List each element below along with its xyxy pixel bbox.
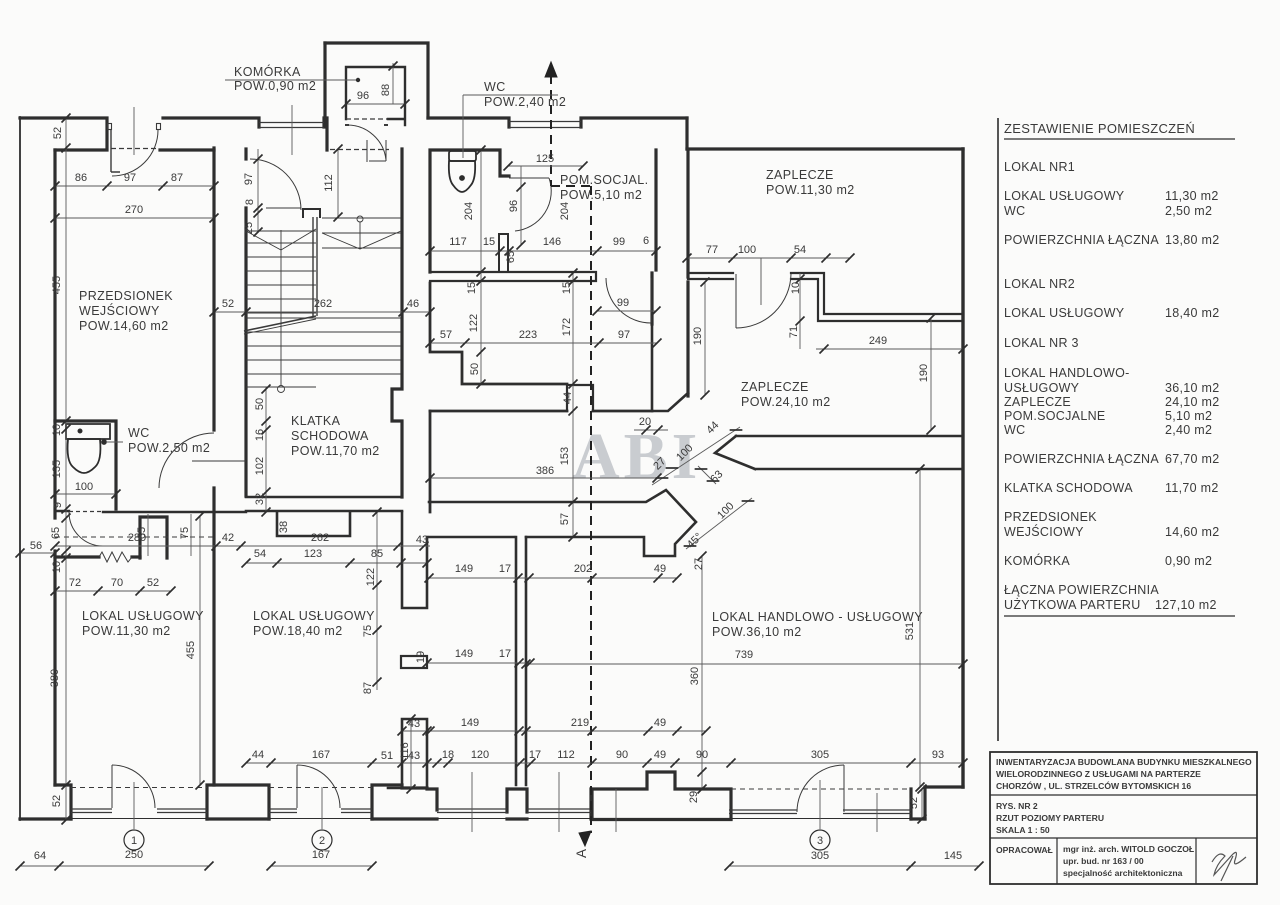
zaplecze24/bigroom band bbox=[715, 436, 963, 469]
dim 20 bbox=[634, 429, 668, 431]
svg-text:117: 117 bbox=[449, 236, 467, 248]
svg-text:120: 120 bbox=[471, 749, 489, 761]
vestibule dashed axis bbox=[55, 536, 215, 538]
panel divider line bbox=[997, 118, 999, 741]
dim row 149/17 (mid) bbox=[427, 662, 530, 664]
svg-text:POWIERZCHNIA ŁĄCZNA: POWIERZCHNIA ŁĄCZNA bbox=[1004, 452, 1159, 466]
vestibule dim lines bbox=[148, 514, 191, 556]
diagonal dim 63 bbox=[698, 466, 716, 484]
svg-text:52: 52 bbox=[51, 795, 63, 807]
vestibule pillar bbox=[140, 517, 167, 558]
corridor north wall bbox=[430, 283, 652, 411]
komorka leader bbox=[225, 79, 358, 81]
svg-text:54: 54 bbox=[254, 548, 266, 560]
svg-text:WIELORODZINNEGO Z USŁUGAMI NA: WIELORODZINNEGO Z USŁUGAMI NA PARTERZE bbox=[996, 769, 1201, 779]
svg-text:67,70 m2: 67,70 m2 bbox=[1165, 452, 1220, 466]
big room bottom piers: left pier of entrance bbox=[592, 772, 731, 819]
svg-text:116: 116 bbox=[399, 742, 411, 760]
big room storefront bbox=[731, 788, 911, 790]
lokal2 storefront: sills, door bbox=[269, 809, 372, 813]
svg-text:100: 100 bbox=[75, 481, 93, 493]
svg-text:50: 50 bbox=[469, 363, 481, 375]
wc2.50 leader bbox=[106, 441, 123, 443]
svg-text:75: 75 bbox=[179, 527, 191, 539]
svg-text:90: 90 bbox=[696, 749, 708, 761]
basin WC2.50: tank bbox=[66, 424, 110, 439]
top wall between entry and window W1 bbox=[160, 118, 259, 150]
klatka south wall band bbox=[246, 497, 402, 511]
lokal1 storefront: sills, door bbox=[71, 809, 207, 813]
svg-text:USŁUGOWY: USŁUGOWY bbox=[1004, 381, 1080, 395]
chain 531 bbox=[919, 469, 921, 787]
corridor east wall w/ chamfer bbox=[652, 324, 688, 411]
svg-text:8: 8 bbox=[244, 199, 256, 205]
svg-text:50: 50 bbox=[254, 398, 266, 410]
svg-text:ZAPLECZE: ZAPLECZE bbox=[766, 168, 834, 182]
svg-text:85: 85 bbox=[371, 548, 383, 560]
column mid bbox=[401, 656, 427, 668]
svg-text:270: 270 bbox=[125, 204, 143, 216]
svg-text:102: 102 bbox=[254, 457, 266, 475]
svg-text:57: 57 bbox=[440, 329, 452, 341]
svg-text:42: 42 bbox=[222, 532, 234, 544]
komorka dims bbox=[346, 63, 405, 104]
basin WC2.50: bowl bbox=[68, 439, 101, 473]
window W2 sill lines bbox=[509, 122, 581, 128]
svg-text:167: 167 bbox=[312, 849, 330, 861]
toilet WC2.40: bowl bbox=[449, 161, 475, 192]
top wall right section bbox=[687, 147, 963, 150]
svg-text:305: 305 bbox=[811, 749, 829, 761]
svg-text:97: 97 bbox=[124, 172, 136, 184]
stair break diagonals bbox=[244, 316, 316, 331]
svg-text:122: 122 bbox=[468, 314, 480, 332]
top-right step down bbox=[685, 118, 688, 149]
svg-text:5,10 m2: 5,10 m2 bbox=[1165, 409, 1212, 423]
svg-text:38: 38 bbox=[278, 521, 290, 533]
klatka east wall bbox=[392, 149, 402, 497]
svg-text:172: 172 bbox=[561, 318, 573, 336]
WC2.40 to pom.socjalne door bbox=[509, 177, 549, 179]
door circle leaders bbox=[134, 780, 820, 829]
przedsionek east wall lower bbox=[212, 488, 215, 785]
svg-text:POW.2,50 m2: POW.2,50 m2 bbox=[128, 441, 210, 455]
svg-text:97: 97 bbox=[618, 329, 630, 341]
komorka outer walls bbox=[325, 43, 428, 150]
svg-text:POW.18,40 m2: POW.18,40 m2 bbox=[253, 624, 343, 638]
dim row 117/15/146/99 bbox=[430, 250, 656, 252]
dim line 86/97/87 bbox=[55, 185, 214, 187]
svg-text:100: 100 bbox=[738, 244, 756, 256]
svg-text:LOKAL NR1: LOKAL NR1 bbox=[1004, 160, 1075, 174]
svg-text:93: 93 bbox=[932, 749, 944, 761]
svg-text:65: 65 bbox=[136, 527, 148, 539]
svg-text:49: 49 bbox=[654, 563, 666, 575]
svg-text:99: 99 bbox=[617, 297, 629, 309]
section line A-A dashed bbox=[551, 75, 591, 833]
svg-text:125: 125 bbox=[536, 153, 554, 165]
svg-text:18: 18 bbox=[442, 749, 454, 761]
svg-text:739: 739 bbox=[735, 649, 753, 661]
dim 100 (wc2.50) bbox=[55, 493, 116, 495]
svg-text:52: 52 bbox=[908, 797, 920, 809]
komorka inner box bbox=[346, 67, 405, 125]
dim 56 bbox=[20, 552, 55, 554]
chain 190 left bbox=[704, 282, 706, 395]
top wall left (przedsionek) bbox=[20, 118, 107, 150]
left flight treads upper bbox=[246, 243, 316, 313]
komorka dashed opening bbox=[346, 118, 388, 120]
svg-text:149: 149 bbox=[455, 563, 473, 575]
svg-text:32: 32 bbox=[254, 493, 266, 505]
svg-text:WEJŚCIOWY: WEJŚCIOWY bbox=[79, 303, 160, 318]
svg-text:1: 1 bbox=[131, 835, 137, 847]
svg-text:LOKAL USŁUGOWY: LOKAL USŁUGOWY bbox=[1004, 306, 1125, 320]
svg-text:72: 72 bbox=[69, 577, 81, 589]
svg-text:11,30 m2: 11,30 m2 bbox=[1165, 189, 1219, 203]
svg-text:65: 65 bbox=[50, 527, 62, 539]
svg-text:10: 10 bbox=[51, 561, 63, 573]
svg-text:262: 262 bbox=[311, 532, 329, 544]
svg-text:POW.11,30 m2: POW.11,30 m2 bbox=[766, 183, 855, 197]
chain 116 bbox=[410, 719, 412, 789]
chain 96 bbox=[520, 166, 522, 245]
svg-text:POW.14,60 m2: POW.14,60 m2 bbox=[79, 319, 169, 333]
svg-text:6: 6 bbox=[643, 235, 649, 247]
svg-text:44: 44 bbox=[562, 392, 574, 404]
svg-text:204: 204 bbox=[559, 202, 571, 220]
klatka door jamb block bbox=[303, 209, 320, 217]
dim row 54/123/85 bbox=[246, 562, 427, 564]
storefront piers lokal1/lokal2 bbox=[55, 785, 591, 819]
door number circles bbox=[124, 830, 830, 850]
svg-text:153: 153 bbox=[559, 447, 571, 465]
dim 112 chain bbox=[337, 149, 339, 217]
svg-text:122: 122 bbox=[365, 568, 377, 586]
svg-text:POW.24,10 m2: POW.24,10 m2 bbox=[741, 395, 831, 409]
dim row 149/17/202/49 bbox=[429, 577, 677, 579]
signature bbox=[1212, 852, 1246, 881]
vestibule south wall bbox=[55, 555, 140, 558]
dim row 77/100/54 bbox=[687, 257, 850, 259]
dim row 52/262/46 bbox=[214, 311, 430, 313]
svg-text:19: 19 bbox=[415, 651, 427, 663]
bottom right step bbox=[911, 787, 963, 819]
svg-text:87: 87 bbox=[362, 682, 374, 694]
svg-text:127,10 m2: 127,10 m2 bbox=[1155, 598, 1217, 612]
svg-text:52: 52 bbox=[147, 577, 159, 589]
svg-text:223: 223 bbox=[519, 329, 537, 341]
lowest dim rows bbox=[20, 865, 979, 867]
lokal2 window 112 bbox=[527, 809, 591, 813]
svg-text:24,10 m2: 24,10 m2 bbox=[1165, 395, 1220, 409]
corridor west wall bbox=[429, 411, 432, 512]
svg-text:WC: WC bbox=[1004, 204, 1025, 218]
komorka door leaf bbox=[367, 140, 386, 162]
right flight treads + V bbox=[322, 231, 401, 249]
svg-text:219: 219 bbox=[571, 717, 589, 729]
svg-text:112: 112 bbox=[557, 749, 575, 761]
svg-text:112: 112 bbox=[323, 174, 335, 192]
svg-text:specjalność architektoniczna: specjalność architektoniczna bbox=[1063, 868, 1183, 878]
entry door axis bbox=[133, 107, 135, 155]
right outer wall bbox=[961, 149, 964, 787]
svg-text:PRZEDSIONEK: PRZEDSIONEK bbox=[1004, 510, 1097, 524]
svg-text:204: 204 bbox=[463, 202, 475, 220]
svg-text:146: 146 bbox=[543, 236, 561, 248]
dim 125 bbox=[508, 165, 583, 167]
window W1 axis bbox=[291, 105, 293, 155]
svg-text:SKALA 1 : 50: SKALA 1 : 50 bbox=[996, 825, 1050, 835]
svg-text:RZUT POZIOMY PARTERU: RZUT POZIOMY PARTERU bbox=[996, 813, 1104, 823]
dim 99 door bbox=[597, 310, 656, 312]
klatka west wall below door bbox=[244, 208, 247, 496]
przedsionek west wall bbox=[53, 150, 56, 421]
pom.socjalne east wall bbox=[652, 150, 656, 324]
svg-text:KLATKA SCHODOWA: KLATKA SCHODOWA bbox=[1004, 481, 1133, 495]
lower flight treads full width bbox=[246, 318, 316, 374]
chain 122/75/87 bbox=[376, 512, 378, 690]
svg-text:52: 52 bbox=[52, 127, 64, 139]
svg-text:75: 75 bbox=[362, 625, 374, 637]
svg-text:LOKAL NR 3: LOKAL NR 3 bbox=[1004, 336, 1079, 350]
svg-text:96: 96 bbox=[357, 90, 369, 102]
svg-text:49: 49 bbox=[654, 749, 666, 761]
stringer between flights bbox=[313, 217, 317, 316]
svg-text:49: 49 bbox=[654, 717, 666, 729]
WC 2.50 south wall + stub bbox=[55, 511, 246, 512]
svg-text:POM.SOCJALNE: POM.SOCJALNE bbox=[1004, 409, 1106, 423]
niche 44 bbox=[567, 385, 593, 411]
dim 739 bbox=[526, 663, 963, 665]
svg-text:455: 455 bbox=[185, 641, 197, 659]
svg-text:WC: WC bbox=[484, 80, 506, 94]
svg-text:455: 455 bbox=[51, 276, 63, 294]
svg-text:10: 10 bbox=[790, 282, 802, 294]
WC 2.50 room walls bbox=[55, 421, 116, 518]
main bottom dim row bbox=[246, 762, 963, 764]
bottom wall under windows lokal2 right piece bbox=[388, 787, 402, 790]
svg-text:15: 15 bbox=[466, 282, 478, 294]
zaplecze11 door dims leaf bbox=[760, 258, 762, 305]
svg-text:18,40 m2: 18,40 m2 bbox=[1165, 306, 1220, 320]
bottom wall outer face (piers thick) bbox=[20, 817, 925, 821]
svg-text:123: 123 bbox=[304, 548, 322, 560]
svg-text:10: 10 bbox=[51, 424, 63, 436]
bottom wall outer face thin line bbox=[20, 818, 925, 820]
svg-text:15: 15 bbox=[561, 282, 573, 294]
svg-text:190: 190 bbox=[918, 364, 930, 382]
WC/pom.socjalne wall stub bbox=[499, 234, 508, 272]
chain 190 right bbox=[930, 318, 932, 430]
vestibule zigzag bbox=[99, 552, 132, 562]
svg-text:WC: WC bbox=[1004, 423, 1025, 437]
diagonal dim 27/100/44 bbox=[652, 427, 740, 485]
wall pair x401/427 upper stub bbox=[402, 512, 427, 608]
chain 360/29 bbox=[701, 556, 703, 789]
svg-text:ZAPLECZE: ZAPLECZE bbox=[1004, 395, 1071, 409]
chain 15/172/44/153/57 bbox=[572, 273, 574, 537]
svg-text:9: 9 bbox=[52, 502, 64, 508]
svg-text:OPRACOWAŁ: OPRACOWAŁ bbox=[996, 845, 1053, 855]
svg-text:16: 16 bbox=[254, 429, 266, 441]
svg-text:29: 29 bbox=[688, 791, 700, 803]
svg-text:LOKAL HANDLOWO - USŁUGOWY: LOKAL HANDLOWO - USŁUGOWY bbox=[712, 610, 923, 624]
svg-text:KOMÓRKA: KOMÓRKA bbox=[1004, 553, 1070, 568]
entry door dashed bbox=[111, 148, 158, 150]
svg-text:0,90 m2: 0,90 m2 bbox=[1165, 554, 1212, 568]
dim row 149/219/49 bbox=[402, 730, 706, 732]
svg-text:43: 43 bbox=[408, 718, 420, 730]
lokal1 455 chain bbox=[199, 516, 201, 785]
center line right + circle bbox=[359, 222, 361, 248]
zaplecze11 west wall bbox=[686, 150, 689, 277]
svg-text:CHORZÓW , UL. STRZELCÓW BYTOMS: CHORZÓW , UL. STRZELCÓW BYTOMSKICH 16 bbox=[996, 780, 1191, 791]
dim texts horizontal bbox=[30, 90, 962, 862]
svg-text:262: 262 bbox=[314, 298, 332, 310]
svg-text:upr. bud. nr 163 / 00: upr. bud. nr 163 / 00 bbox=[1063, 856, 1144, 866]
svg-text:65: 65 bbox=[505, 251, 517, 263]
svg-text:249: 249 bbox=[869, 335, 887, 347]
svg-text:POW.11,70 m2: POW.11,70 m2 bbox=[291, 444, 380, 458]
svg-text:WC: WC bbox=[128, 426, 150, 440]
svg-text:17: 17 bbox=[499, 648, 511, 660]
svg-text:14,60 m2: 14,60 m2 bbox=[1165, 525, 1220, 539]
klatka west wall upper bbox=[244, 149, 247, 159]
bottom-left corner inner bbox=[53, 551, 56, 785]
svg-text:LOKAL USŁUGOWY: LOKAL USŁUGOWY bbox=[82, 609, 204, 623]
window W1 jamb right / komorka left wall bbox=[324, 43, 325, 127]
svg-text:386: 386 bbox=[536, 465, 554, 477]
svg-text:202: 202 bbox=[574, 563, 592, 575]
svg-text:44: 44 bbox=[704, 419, 721, 436]
WC 2.40 walls bbox=[430, 150, 509, 272]
svg-text:ŁĄCZNA POWIERZCHNIA: ŁĄCZNA POWIERZCHNIA bbox=[1004, 583, 1159, 597]
svg-text:70: 70 bbox=[111, 577, 123, 589]
window W1 sill lines bbox=[259, 123, 324, 128]
komorka door jambs bbox=[345, 124, 388, 126]
svg-text:305: 305 bbox=[811, 850, 829, 862]
svg-text:25: 25 bbox=[243, 222, 255, 234]
svg-text:87: 87 bbox=[171, 172, 183, 184]
chain 52 right bbox=[921, 789, 923, 819]
svg-text:86: 86 bbox=[75, 172, 87, 184]
svg-text:27: 27 bbox=[693, 558, 705, 570]
svg-text:135: 135 bbox=[51, 460, 63, 478]
left flight V arrows top bbox=[246, 229, 316, 250]
svg-text:44: 44 bbox=[252, 749, 264, 761]
svg-text:ZAPLECZE: ZAPLECZE bbox=[741, 380, 809, 394]
entry door leaf bbox=[111, 130, 120, 172]
left vertical dim chain bbox=[65, 118, 67, 820]
svg-text:PRZEDSIONEK: PRZEDSIONEK bbox=[79, 289, 173, 303]
svg-text:145: 145 bbox=[944, 850, 962, 862]
svg-text:77: 77 bbox=[706, 244, 718, 256]
svg-text:97: 97 bbox=[243, 173, 255, 185]
dim row 280/42/262/43 bbox=[55, 545, 430, 547]
svg-text:POW.36,10 m2: POW.36,10 m2 bbox=[712, 625, 802, 639]
klatka door arc + leaf bbox=[250, 159, 301, 210]
toilet WC2.40: tank bbox=[449, 151, 476, 161]
dim line 270 bbox=[55, 217, 214, 219]
svg-text:57: 57 bbox=[559, 513, 571, 525]
zaplecze24 west wall bbox=[686, 282, 689, 396]
svg-text:63: 63 bbox=[708, 468, 725, 485]
svg-text:190: 190 bbox=[692, 327, 704, 345]
stairwell top dashed opening bbox=[330, 149, 389, 151]
svg-text:96: 96 bbox=[508, 200, 520, 212]
svg-text:149: 149 bbox=[455, 648, 473, 660]
svg-text:13,80 m2: 13,80 m2 bbox=[1165, 233, 1220, 247]
diagonal dim 100/45 bbox=[686, 498, 752, 549]
wall pillar above bottom piers bbox=[402, 719, 427, 789]
dim row 72/70/52 bbox=[55, 590, 171, 592]
svg-text:POW.11,30 m2: POW.11,30 m2 bbox=[82, 624, 171, 638]
svg-text:2,50 m2: 2,50 m2 bbox=[1165, 204, 1212, 218]
svg-text:A: A bbox=[574, 849, 589, 858]
svg-text:20: 20 bbox=[639, 416, 651, 428]
svg-text:POM.SOCJAL.: POM.SOCJAL. bbox=[560, 173, 648, 187]
przedsionek-vestibule door arc bbox=[159, 433, 214, 488]
svg-text:RYS. NR 2: RYS. NR 2 bbox=[996, 801, 1038, 811]
outer left wall bbox=[19, 117, 21, 820]
zaplecze11 door arc (100) bbox=[736, 274, 791, 328]
klatka door chain bbox=[257, 149, 259, 232]
svg-text:46: 46 bbox=[407, 298, 419, 310]
wall pair between lokal2 and big room bbox=[516, 537, 526, 785]
svg-text:LOKAL USŁUGOWY: LOKAL USŁUGOWY bbox=[253, 609, 375, 623]
svg-text:51: 51 bbox=[381, 750, 393, 762]
svg-text:56: 56 bbox=[30, 540, 42, 552]
svg-text:mgr inż. arch. WITOLD GOCZOŁ: mgr inż. arch. WITOLD GOCZOŁ bbox=[1063, 844, 1194, 854]
dim 386 bbox=[430, 477, 657, 479]
svg-text:POWIERZCHNIA ŁĄCZNA: POWIERZCHNIA ŁĄCZNA bbox=[1004, 233, 1159, 247]
svg-text:LOKAL HANDLOWO-: LOKAL HANDLOWO- bbox=[1004, 366, 1130, 380]
corridor south band + chevron bbox=[429, 490, 696, 556]
svg-text:64: 64 bbox=[34, 850, 46, 862]
landing tread line bbox=[322, 217, 401, 219]
center line left + circle bbox=[280, 230, 282, 386]
lokal2 window 120 bbox=[437, 809, 507, 813]
svg-text:POW.2,40 m2: POW.2,40 m2 bbox=[484, 95, 566, 109]
svg-text:LOKAL USŁUGOWY: LOKAL USŁUGOWY bbox=[1004, 189, 1125, 203]
svg-text:POW.5,10 m2: POW.5,10 m2 bbox=[560, 188, 642, 202]
svg-text:71: 71 bbox=[788, 326, 800, 338]
przedsionek east wall upper bbox=[212, 148, 215, 430]
svg-text:52: 52 bbox=[222, 298, 234, 310]
svg-text:WEJŚCIOWY: WEJŚCIOWY bbox=[1004, 524, 1084, 539]
chain 10/71 bbox=[799, 273, 801, 349]
svg-text:250: 250 bbox=[125, 849, 143, 861]
svg-text:43: 43 bbox=[416, 534, 428, 546]
svg-text:ZESTAWIENIE POMIESZCZEŃ: ZESTAWIENIE POMIESZCZEŃ bbox=[1004, 121, 1195, 136]
svg-text:2: 2 bbox=[319, 835, 325, 847]
WC2.50 door dashed + arc bbox=[69, 511, 103, 513]
svg-text:3: 3 bbox=[817, 835, 823, 847]
window axes bottom bbox=[472, 772, 877, 832]
svg-text:167: 167 bbox=[312, 749, 330, 761]
svg-text:99: 99 bbox=[613, 236, 625, 248]
section arrow top bbox=[545, 62, 557, 77]
dim row 57/223/97 bbox=[430, 342, 657, 344]
dim texts rotated bbox=[49, 84, 930, 809]
pom.socjalne south band bbox=[430, 272, 596, 281]
svg-text:36,10 m2: 36,10 m2 bbox=[1165, 381, 1220, 395]
svg-text:KOMÓRKA: KOMÓRKA bbox=[234, 64, 301, 79]
svg-text:INWENTARYZACJA BUDOWLANA BUDYN: INWENTARYZACJA BUDOWLANA BUDYNKU MIESZKA… bbox=[996, 757, 1252, 767]
zaplecze11 south wall band left bbox=[688, 273, 733, 279]
zaplecze11 south wall band right + L to right wall bbox=[791, 273, 963, 321]
